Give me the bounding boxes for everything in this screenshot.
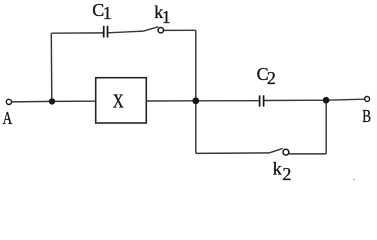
svg-text:1: 1 (103, 3, 112, 23)
svg-text:A: A (3, 108, 13, 128)
svg-text:1: 1 (162, 7, 171, 27)
svg-text:k: k (273, 159, 282, 179)
svg-text:B: B (362, 106, 371, 126)
svg-text:X: X (113, 92, 124, 113)
svg-text:2: 2 (267, 68, 276, 88)
svg-text:2: 2 (282, 164, 291, 183)
